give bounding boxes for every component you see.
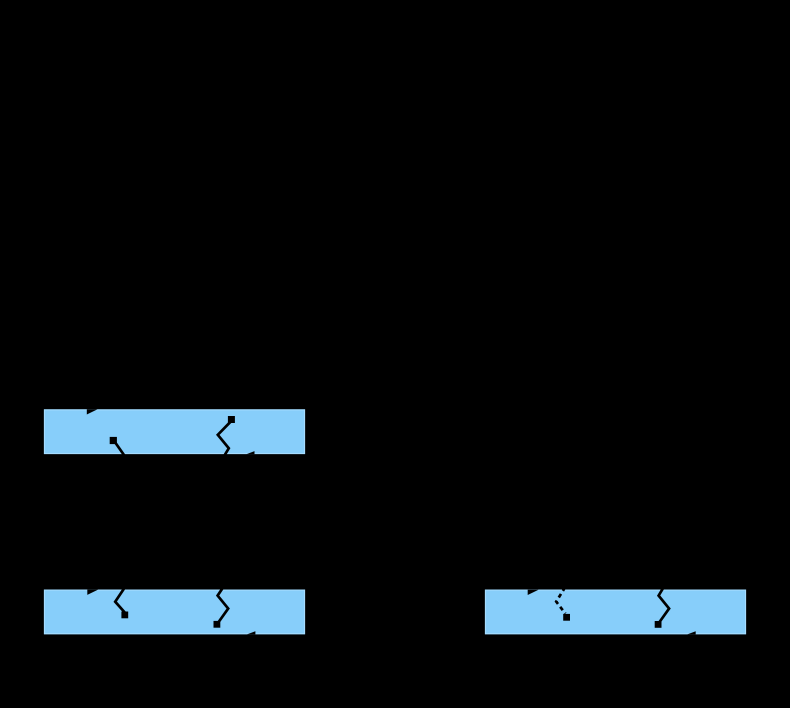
wire arrowhead on top rail of row2-right box <box>528 590 539 595</box>
resistor R1 (zigzag in row1 box) <box>218 421 232 456</box>
node B2 (square junction dot) <box>214 621 221 628</box>
resistor R3 (zigzag in row2-right box) <box>659 587 670 622</box>
node A1 (square junction dot) <box>110 437 117 444</box>
wire arrowhead on bottom rail of row2-right box <box>687 631 695 634</box>
node C2 (square junction dot) <box>655 621 662 628</box>
wire+resistor lead into node B1 <box>115 587 125 612</box>
dashed resistor (continuation) into node C1 <box>556 587 565 613</box>
highlight box row2-right <box>485 590 746 635</box>
wire from node A1 crossing bottom rail <box>115 442 126 457</box>
wire arrowhead on top rail of row2-left box <box>87 590 98 595</box>
wire arrowhead on top rail of row1 box <box>87 409 98 414</box>
highlight box row1 (section highlight) <box>44 409 305 454</box>
resistor R2 (zigzag in row2-left box) <box>218 587 229 622</box>
node C1 (square junction dot) <box>563 614 570 621</box>
wire arrowhead on bottom rail of row2-left box <box>247 631 255 634</box>
node A2 (square junction dot) <box>228 416 235 423</box>
node B1 (square junction dot) <box>121 612 128 619</box>
highlight box row2-left <box>44 590 305 635</box>
wire arrowhead on bottom rail of row1 box <box>246 451 254 454</box>
